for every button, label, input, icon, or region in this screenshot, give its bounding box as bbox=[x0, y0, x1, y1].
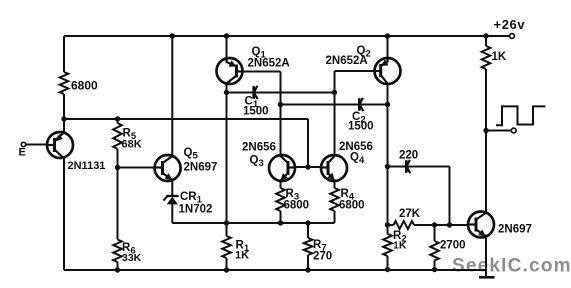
resistor R4 6800 bbox=[330, 188, 339, 211]
transistor 2N1131 (PNP input) bbox=[47, 132, 73, 158]
junction bottom rail / 2700 bbox=[432, 267, 437, 272]
svg-text:27K: 27K bbox=[399, 208, 421, 220]
resistor 27K (horizontal) bbox=[394, 221, 415, 229]
junction 220 row / Q2 collector line bbox=[385, 164, 390, 169]
junction C1 row / Q1 collector bbox=[224, 90, 229, 95]
transistor 2N697 (output, NPN) bbox=[468, 212, 494, 238]
svg-text:33K: 33K bbox=[122, 252, 142, 264]
wire bias row to Q3/Q4 bases bbox=[64, 118, 308, 120]
svg-text:1K: 1K bbox=[235, 250, 249, 262]
wire C1 coupling row bbox=[227, 92, 335, 94]
terminal E input bbox=[21, 142, 25, 146]
svg-text:2N1131: 2N1131 bbox=[68, 160, 106, 172]
junction C1 row / Q4 collector bbox=[332, 90, 337, 95]
svg-text:+26v: +26v bbox=[494, 17, 526, 32]
zener diode CR1 1N702 bbox=[163, 196, 178, 205]
svg-text:Q3: Q3 bbox=[250, 155, 264, 170]
junction Q3-Q4 base tie bbox=[305, 164, 310, 169]
wire top +26v supply rail bbox=[64, 35, 510, 37]
wire 220pf feedback row bbox=[388, 166, 450, 168]
svg-text:6800: 6800 bbox=[284, 200, 310, 212]
transistor Q1 2N652A (PNP) bbox=[217, 58, 243, 84]
transistor Q3 2N656 (NPN) bbox=[269, 155, 295, 181]
svg-text:6800: 6800 bbox=[71, 79, 98, 93]
transistor Q4 2N656 (NPN) bbox=[321, 155, 347, 181]
svg-text:220: 220 bbox=[399, 150, 418, 162]
wire base-row drop bbox=[307, 119, 309, 167]
svg-text:2N697: 2N697 bbox=[184, 162, 218, 174]
wire output collector vertical bbox=[485, 36, 487, 213]
junction row223 / R7 bbox=[305, 220, 310, 225]
svg-text:Q4: Q4 bbox=[350, 152, 365, 167]
capacitor C2 1500 bbox=[358, 98, 361, 111]
svg-text:2N697: 2N697 bbox=[498, 224, 532, 236]
wire 220pf drop bbox=[449, 167, 451, 226]
junction top rail / 1K bbox=[483, 33, 488, 38]
junction C2 row / Q2 collector bbox=[385, 102, 390, 107]
wire left branch vertical (6800 / 2N1131 string) bbox=[63, 36, 65, 270]
terminal output bbox=[511, 128, 516, 133]
capacitor 220 bbox=[405, 160, 408, 173]
wire output tap bbox=[486, 130, 512, 132]
wire Q4 collector / Q2 base vertical bbox=[334, 71, 336, 223]
resistor 6800 (left bias) bbox=[60, 72, 69, 94]
wire Q2 base link bbox=[335, 70, 381, 72]
capacitor C1 1500 bbox=[252, 86, 255, 99]
junction bias row / left branch bbox=[61, 116, 66, 121]
resistor R5 68K bbox=[113, 123, 122, 149]
wire Q5 collector/emitter vertical bbox=[171, 36, 173, 223]
wire bottom common rail bbox=[64, 269, 487, 271]
wire Q2 emitter/collector/R2 vertical bbox=[387, 36, 389, 270]
svg-text:Q5: Q5 bbox=[184, 147, 199, 162]
wire CR1/R1/R3/R7/R4 row bbox=[172, 222, 334, 224]
svg-text:1K: 1K bbox=[393, 240, 407, 252]
svg-text:2N656: 2N656 bbox=[242, 142, 276, 154]
resistor R2 1K bbox=[383, 234, 392, 256]
wire Q1 emitter/collector/R1 vertical bbox=[226, 36, 228, 270]
svg-text:SeekIC.com: SeekIC.com bbox=[452, 256, 571, 277]
junction C2 row / Q3 collector bbox=[278, 102, 283, 107]
wire 2700 vertical bbox=[434, 225, 436, 270]
wire R5/R6 divider vertical bbox=[117, 119, 119, 270]
transistor Q2 2N652A (PNP) bbox=[375, 58, 401, 84]
resistor R6 33K bbox=[113, 240, 122, 263]
junction top rail / Q5 collector bbox=[170, 33, 175, 38]
svg-text:E: E bbox=[19, 147, 26, 159]
square wave output symbol bbox=[496, 106, 545, 125]
resistor 2700 bbox=[430, 241, 439, 261]
junction top rail / Q1 emitter bbox=[224, 33, 229, 38]
svg-text:1K: 1K bbox=[492, 51, 507, 63]
junction 27K row / R2 bbox=[385, 222, 390, 227]
svg-text:1500: 1500 bbox=[243, 106, 269, 118]
junction R5-R6 / Q5 base bbox=[115, 165, 120, 170]
junction bias row / R5 bbox=[115, 116, 120, 121]
svg-text:1N702: 1N702 bbox=[179, 204, 213, 216]
junction bottom rail / R2 bbox=[385, 267, 390, 272]
resistor R3 6800 bbox=[276, 188, 285, 211]
svg-text:2700: 2700 bbox=[440, 240, 466, 252]
junction output node bbox=[483, 128, 488, 133]
svg-text:68K: 68K bbox=[122, 139, 142, 151]
junction bottom rail / R6 bbox=[115, 267, 120, 272]
svg-text:1500: 1500 bbox=[348, 121, 374, 133]
resistor R1 1K bbox=[222, 236, 231, 258]
resistor R7 270 bbox=[304, 238, 313, 255]
junction 27K row / 220 drop bbox=[447, 222, 452, 227]
junction row223 / R1 bbox=[224, 220, 229, 225]
wire Q3-Q4 base tie bbox=[282, 166, 335, 168]
transistor Q5 2N697 (NPN) bbox=[155, 155, 181, 181]
junction top rail / Q2 emitter bbox=[385, 33, 390, 38]
svg-text:6800: 6800 bbox=[339, 200, 365, 212]
svg-text:2N652A: 2N652A bbox=[326, 55, 368, 67]
wire output emitter to ground bbox=[485, 237, 487, 278]
junction row223 / R3 bbox=[278, 220, 283, 225]
svg-text:2N652A: 2N652A bbox=[248, 58, 290, 70]
svg-text:270: 270 bbox=[313, 251, 332, 263]
wire C2 coupling row bbox=[281, 104, 388, 106]
resistor 1K (collector load) bbox=[482, 46, 491, 69]
junction 27K row / 2700 bbox=[432, 222, 437, 227]
wire 27K row to output base bbox=[388, 224, 470, 226]
wire Q1 base link bbox=[230, 72, 281, 224]
terminal +26v bbox=[510, 34, 515, 39]
wire Q5 base bbox=[118, 167, 161, 169]
junction bottom rail / R1 bbox=[224, 267, 229, 272]
wire E input to 2N1131 base bbox=[26, 144, 54, 146]
wire R7 vertical bbox=[307, 223, 309, 270]
ground bbox=[479, 276, 495, 279]
junction bottom rail / R7 bbox=[305, 267, 310, 272]
